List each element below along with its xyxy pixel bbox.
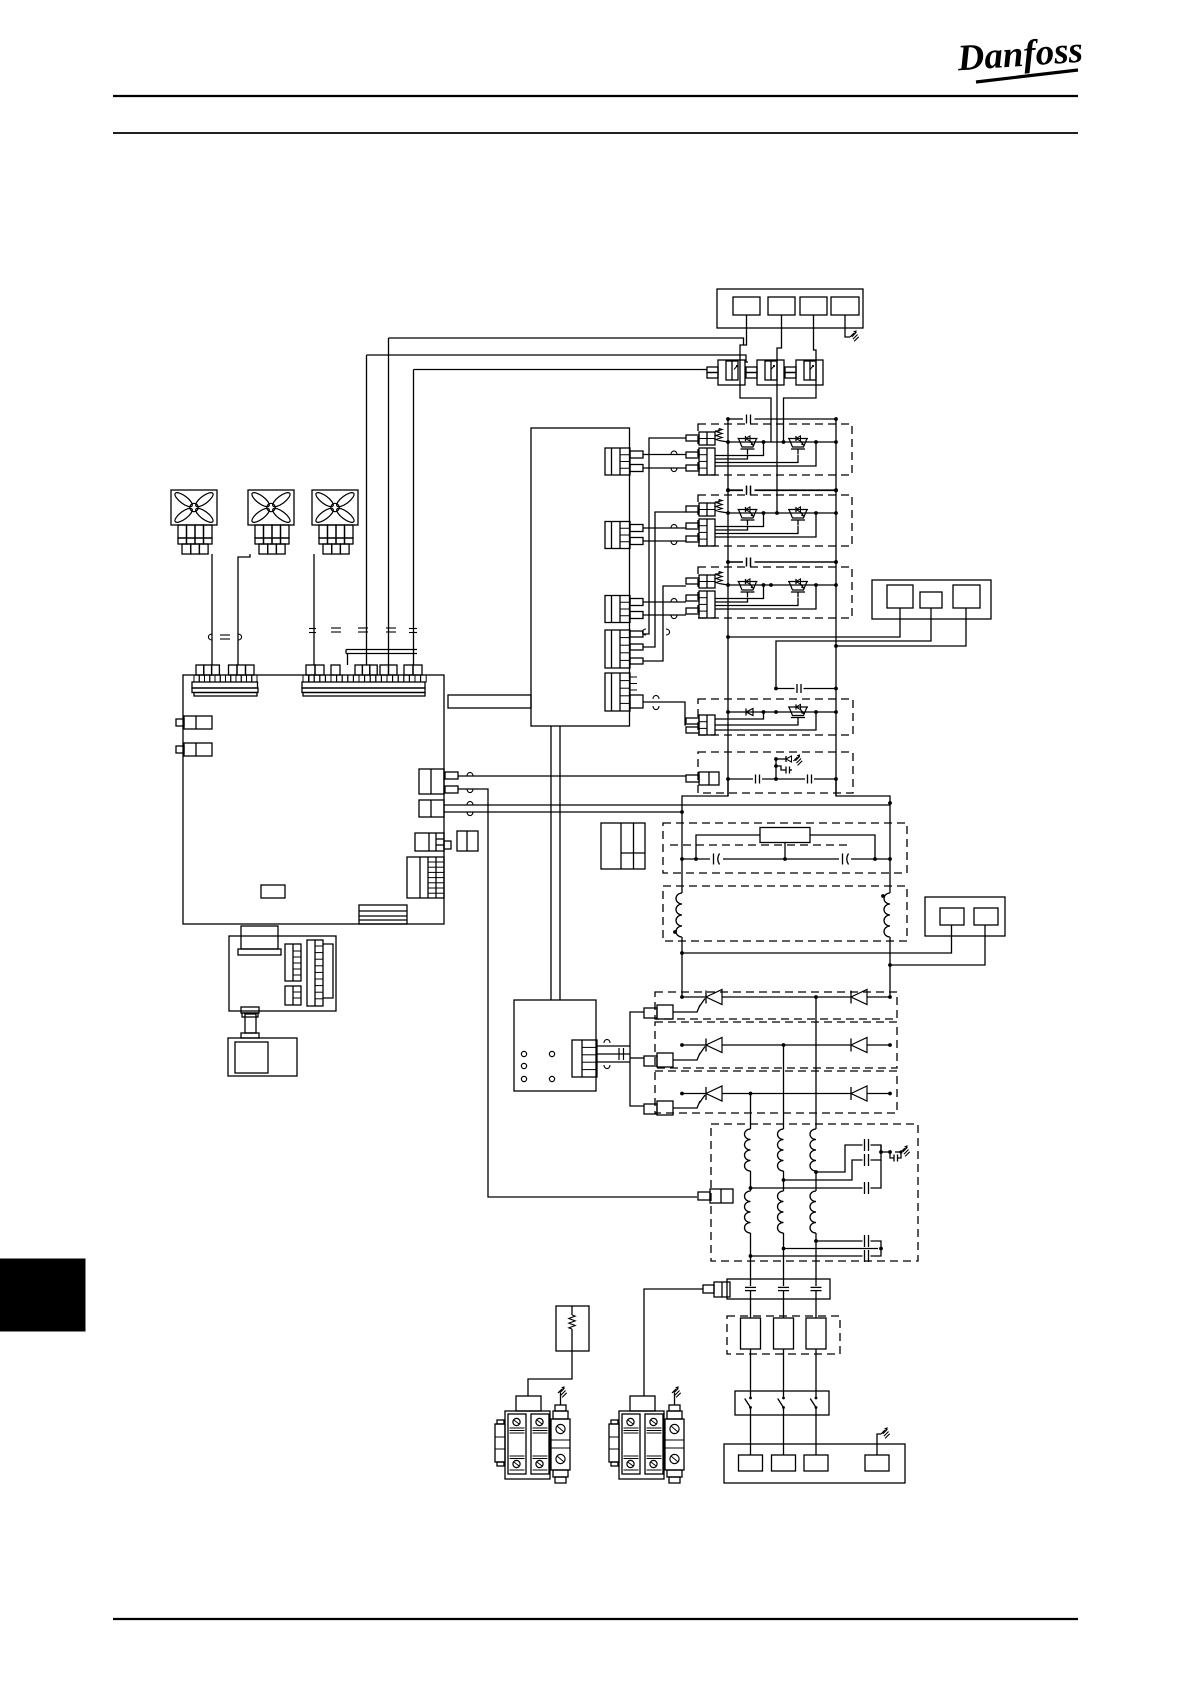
- varistor network to ground: [776, 758, 786, 760]
- fuse F2: [774, 1318, 794, 1349]
- control card (main board): [183, 675, 444, 924]
- mains capacitor 2: [778, 1286, 789, 1288]
- IGBT module W dashed outline: [698, 567, 852, 618]
- wire through T1: [740, 360, 771, 442]
- SCR2 gate wire: [673, 1053, 700, 1060]
- control card connector right A (to brake plug): [415, 833, 451, 851]
- SCR1 gate wire: [673, 1005, 700, 1012]
- phase tap row 2: [782, 1043, 786, 1047]
- IGBT module V dashed outline: [698, 495, 852, 546]
- RFI bleeder network: [890, 1152, 894, 1158]
- LCP control panel: [228, 1038, 297, 1076]
- option board plug to control card: [241, 926, 278, 949]
- FAN1 wire: [211, 554, 213, 665]
- control card connector right D: [419, 800, 444, 817]
- fan FAN3: [312, 490, 358, 554]
- ground at fuse block 2: [674, 1393, 676, 1405]
- gate card connector MK12: [605, 522, 630, 549]
- varistor section dashed outline: [698, 752, 853, 793]
- brake snubber line: [776, 688, 795, 690]
- fuse holder block 1 (fan supply): [495, 1396, 570, 1483]
- mains capacitor 1: [745, 1286, 756, 1288]
- IGBT lower V: [788, 507, 808, 526]
- ground at fuse block 1: [560, 1393, 562, 1405]
- gate card connector MK15: [605, 673, 637, 711]
- IGBT lower W: [788, 579, 808, 598]
- SMPS gate supply wires: [597, 1045, 630, 1047]
- DC plus bus jog: [682, 779, 728, 893]
- gate card wires to module V: [643, 527, 686, 529]
- cable mark: [467, 772, 473, 776]
- RFI coil phase 3 lower: [810, 1191, 816, 1233]
- DC+ terminal: [974, 908, 998, 925]
- cable marks top-plug wires: [642, 629, 646, 635]
- mains capacitor 3: [811, 1286, 822, 1288]
- RFI Y-cap 3: [864, 1182, 866, 1194]
- current sensor T1: [702, 360, 745, 385]
- RFI tap line phase 2 lower: [784, 1248, 879, 1250]
- DC coils dashed outline: [663, 886, 907, 941]
- FAN3 wire: [313, 554, 315, 665]
- RFI tap line phase 3 upper: [816, 1145, 863, 1172]
- DC- terminal wire: [682, 925, 952, 953]
- mains terminal block: [724, 1444, 905, 1483]
- thyristor SCR3: [699, 1086, 722, 1104]
- mains disconnect switch box: [735, 1391, 829, 1415]
- soft charge resistor: [760, 828, 810, 843]
- ground at PE terminal: [877, 1434, 881, 1455]
- gate plug main W: [686, 591, 715, 618]
- gate card connector MK14: [605, 630, 630, 668]
- phase tap row 3: [749, 1092, 753, 1096]
- mains box plug: [703, 1282, 730, 1297]
- brake chopper plug (from control card): [686, 772, 719, 785]
- SCR2 gate plug: [644, 1053, 673, 1067]
- wire resistor to fuse holder: [528, 1351, 572, 1396]
- wire control card to DC plus rail: [444, 811, 682, 813]
- RFI X-cap 1: [864, 1235, 866, 1247]
- module U top plug wire: [643, 438, 686, 634]
- RFI tap line phase 3 lower: [816, 1240, 863, 1242]
- header rule 1: [113, 95, 1078, 97]
- option board connector strip 1: [285, 944, 301, 981]
- gate card connector MK13: [605, 596, 630, 623]
- phase tap row 1: [814, 995, 818, 999]
- mains terminal PE: [865, 1455, 889, 1471]
- rectifier dashed outline row 2: [655, 1022, 897, 1068]
- RFI Y-cap 1: [864, 1139, 866, 1151]
- wire A53.2 to CT2: [777, 315, 782, 360]
- rectifier diode D2: [851, 1038, 867, 1053]
- current sensor T3: [785, 360, 823, 385]
- fuse holder block 2 (SMPS supply): [609, 1396, 684, 1483]
- ground at RFI: [901, 1148, 905, 1152]
- varistor capacitor line: [728, 778, 753, 780]
- SMPS pin 5: [549, 1076, 554, 1081]
- DC- terminal: [940, 908, 964, 925]
- control card connector right B (bottom): [407, 857, 444, 898]
- A53 terminal 4: [831, 297, 859, 315]
- terminal V wire: [776, 608, 931, 689]
- module V top plug wire: [643, 512, 686, 647]
- IGBT upper V: [738, 507, 758, 526]
- snubber line U: [728, 418, 743, 420]
- RFI ground node: [879, 1150, 883, 1154]
- fan supply jog: [346, 649, 417, 651]
- option board connector strip 3: [307, 940, 333, 1006]
- footer rule: [113, 1618, 1078, 1620]
- SCR3 gate wire: [673, 1101, 700, 1108]
- wire through T2: [776, 360, 778, 513]
- SCR3 gate plug: [644, 1101, 673, 1115]
- IGBT lower U: [788, 436, 808, 455]
- gate wires V: [715, 514, 764, 527]
- DC terminal block: [925, 897, 1005, 936]
- DC coil L2: [884, 893, 890, 937]
- resistor element: [571, 1306, 573, 1315]
- wire control card to RFI plug (long): [458, 789, 697, 1197]
- power card (SMPS): [514, 1000, 596, 1091]
- black section tab: [0, 1259, 85, 1331]
- control card connector left B: [184, 743, 212, 756]
- phase line V: [728, 512, 836, 514]
- gate card wires to module W: [643, 601, 686, 603]
- snubber line V: [728, 489, 743, 491]
- control card connector right C (wires to brake/RFI): [419, 769, 458, 794]
- wire control card to brake chopper plug: [458, 775, 686, 777]
- rectifier dashed outline row 1: [655, 992, 897, 1019]
- rectifier dashed outline row 3: [655, 1071, 897, 1113]
- rectifier row 1 line: [682, 996, 706, 998]
- control card inner rect: [261, 885, 285, 898]
- IGBT upper W: [738, 579, 758, 598]
- snubber line W: [728, 561, 743, 563]
- SMPS pin 2: [521, 1063, 526, 1068]
- gate resistor W: [715, 572, 719, 575]
- RFI Y-cap 2: [864, 1154, 866, 1166]
- LCP cable: [241, 1007, 259, 1038]
- rectifier diode D3: [851, 1086, 867, 1101]
- RFI coil phase 2 lower: [778, 1191, 784, 1233]
- wire A53.3 to CT3: [814, 315, 817, 360]
- snubber capacitor W: [746, 558, 748, 567]
- RFI X-cap 2: [864, 1250, 866, 1262]
- RFI phase links: [750, 1171, 752, 1191]
- DC bus negative rail (modules): [835, 419, 837, 796]
- header rule 2: [113, 132, 1078, 134]
- ground at varistor: [794, 757, 798, 761]
- soft charge resistor branch right: [810, 835, 875, 859]
- fan FAN2: [248, 490, 294, 554]
- ribbon cable control card to gate drive card: [448, 695, 531, 708]
- mains fuses dashed outline: [727, 1316, 840, 1354]
- mains terminal L3: [804, 1455, 828, 1471]
- wires disconnect to mains terminals: [750, 1415, 752, 1455]
- module W top plug wire: [643, 586, 686, 661]
- DC plus link to rectifier: [681, 937, 683, 997]
- brake phase line: [728, 711, 836, 713]
- FAN2 wire: [238, 554, 250, 665]
- control card connector MK2 (top right): [302, 665, 426, 696]
- wire control card to DC minus rail: [444, 804, 890, 806]
- signal wire 3 (to T1 plug): [414, 369, 703, 371]
- capacitor bank line: [682, 858, 710, 860]
- gate plug small V: [686, 503, 715, 516]
- soft charge resistor branch left: [696, 835, 760, 859]
- rectifier row 2 line: [682, 1044, 706, 1046]
- DC minus link to rectifier: [889, 937, 891, 997]
- terminal block A53 (top): [717, 289, 863, 328]
- DC coil L1: [676, 893, 682, 937]
- option board connector strip 2: [285, 986, 301, 1005]
- LCP display: [235, 1042, 268, 1073]
- control card connector MK1 (fans left): [192, 665, 258, 696]
- gate plug main V: [686, 519, 715, 546]
- thyristor SCR2: [699, 1038, 722, 1056]
- brake chopper dashed outline: [698, 699, 853, 735]
- A53 terminal 1: [733, 297, 760, 315]
- wire through T3: [784, 360, 817, 442]
- terminal U wire: [728, 608, 900, 637]
- cable mark: [467, 801, 473, 805]
- gate drive supply wires to SMPS: [550, 726, 552, 1000]
- gate plug main U: [686, 448, 715, 475]
- rectifier diode D1: [851, 990, 867, 1005]
- fuse F1: [741, 1318, 761, 1349]
- DC bus positive rail (modules): [727, 419, 729, 796]
- disconnect switch pole 3: [815, 1391, 817, 1398]
- brake gate wires: [715, 713, 764, 719]
- cable mark FAN1/FAN2: [208, 634, 212, 640]
- current sensor T2: [746, 360, 784, 385]
- wire mains box to fuse block: [644, 1289, 703, 1396]
- snubber capacitor V: [746, 486, 748, 495]
- thyristor SCR1: [699, 990, 722, 1008]
- terminal W wire: [836, 608, 966, 646]
- mains terminal L1: [739, 1455, 763, 1471]
- SCR gate harness: [630, 1012, 644, 1106]
- cable marks SMPS wires: [604, 1039, 610, 1043]
- signal wire 1 (to control card): [389, 338, 744, 345]
- DC minus bus jog: [836, 779, 890, 893]
- gate plug small U: [686, 432, 715, 445]
- phase line U: [728, 441, 836, 443]
- DC+ terminal wire: [890, 925, 985, 965]
- rectifier row 3 line: [682, 1093, 706, 1095]
- soft charge card: [601, 823, 645, 869]
- wire A53.1 to CT1: [740, 315, 747, 360]
- RFI coil phase 3 upper: [810, 1129, 816, 1171]
- brake gate plug: [686, 715, 715, 735]
- brake diode: [746, 709, 753, 716]
- RFI tap line phase 1 upper: [751, 1187, 863, 1189]
- snubber capacitor U: [746, 415, 748, 424]
- signal cable risers to control card: [388, 338, 390, 665]
- mains terminal capacitor box: [727, 1279, 830, 1299]
- A53 terminal 2: [768, 297, 795, 315]
- gate card connector MK11: [605, 448, 630, 475]
- gate resistor U: [715, 429, 719, 432]
- gate card wires to module U: [643, 454, 686, 456]
- inter-module bus line 1: [728, 490, 743, 492]
- option board: [229, 936, 336, 1011]
- fan FAN1: [171, 490, 217, 554]
- capacitor bank midpoint stem: [784, 843, 786, 860]
- control card bottom strip: [359, 905, 407, 924]
- IGBT module U dashed outline: [698, 424, 852, 475]
- gate plug small W: [686, 575, 715, 588]
- fan transformer resistor box: [556, 1306, 589, 1351]
- RFI coil phase 1 lower: [745, 1191, 751, 1233]
- SMPS pin 3: [521, 1076, 526, 1081]
- brake IGBT: [788, 704, 808, 723]
- gate card wire to brake plug: [643, 702, 686, 725]
- SMPS pin 1: [521, 1051, 526, 1056]
- RFI tap line phase 2 upper: [784, 1160, 863, 1180]
- DC link dashed outline (capacitor bank): [663, 823, 907, 873]
- gate drive card: [531, 428, 630, 726]
- RFI input plug: [698, 1189, 733, 1203]
- capacitor bank C1: [713, 854, 715, 865]
- signal wire 2 (to control card): [367, 355, 749, 362]
- disconnect switch pole 2: [783, 1391, 785, 1398]
- mains terminal L2: [772, 1455, 796, 1471]
- ground at A53 terminal 4: [845, 315, 850, 337]
- IGBT upper U: [738, 436, 758, 455]
- terminal W: [953, 585, 980, 608]
- varistor midpoint stem: [775, 759, 777, 779]
- aux connector 2-cell: [457, 831, 478, 851]
- gate wires W: [715, 586, 764, 599]
- RFI filter dashed outline: [711, 1124, 918, 1261]
- gate resistor V: [715, 500, 719, 503]
- A53 terminal 3: [800, 297, 827, 315]
- RFI coil phase 1 upper: [745, 1129, 751, 1171]
- cable marks signal cables: [309, 628, 316, 630]
- capacitor bank C2: [842, 854, 844, 865]
- wires fuses to disconnect: [750, 1349, 752, 1391]
- terminal V: [920, 592, 942, 608]
- SMPS pin 4: [549, 1051, 554, 1056]
- phase line W: [728, 584, 836, 586]
- SMPS output connector: [572, 1040, 597, 1077]
- Danfoss logo: [955, 30, 1084, 82]
- inter-module bus line 2: [728, 561, 743, 563]
- disconnect switch pole 1: [750, 1391, 752, 1398]
- motor terminal block (U V W): [872, 580, 991, 619]
- fuse F3: [806, 1318, 826, 1349]
- terminal U: [887, 585, 913, 608]
- control card connector left A: [184, 716, 212, 729]
- RFI coil phase 2 upper: [778, 1129, 784, 1171]
- SCR1 gate plug: [644, 1005, 673, 1019]
- gate wires U: [715, 443, 764, 456]
- RFI tap line phase 1 lower: [751, 1255, 863, 1257]
